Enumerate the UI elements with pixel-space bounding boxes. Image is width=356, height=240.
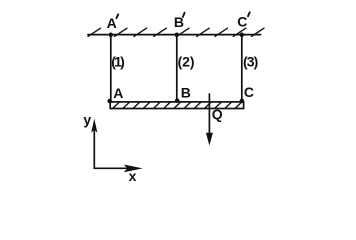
svg-text:(1): (1) <box>111 53 124 69</box>
ceiling hatching <box>88 28 264 36</box>
svg-text:C: C <box>244 84 254 100</box>
arrowhead of force Q <box>206 133 213 146</box>
pin dot A <box>107 99 112 104</box>
beam hatching <box>113 103 242 109</box>
rod 2 (bar B'B) <box>176 35 178 102</box>
y axis shaft <box>93 131 95 168</box>
x axis shaft <box>94 167 127 169</box>
svg-text:C: C <box>237 13 247 29</box>
svg-text:A: A <box>113 85 123 101</box>
pin dot C' <box>240 33 245 38</box>
pin dot A' <box>109 33 114 38</box>
prime of A' <box>116 14 118 18</box>
pin dot B' <box>175 33 180 38</box>
pin dot C <box>240 99 245 104</box>
pin dot B <box>175 98 180 103</box>
arrowhead of y axis <box>91 119 97 133</box>
svg-text:x: x <box>129 168 137 184</box>
svg-text:(2): (2) <box>178 53 195 69</box>
prime of B' <box>183 13 185 17</box>
svg-text:B: B <box>174 14 184 30</box>
rod 3 (bar C'C) <box>241 35 243 102</box>
arrowhead of x axis <box>124 165 143 173</box>
force Q line <box>208 94 210 135</box>
rod 1 (bar A'A) <box>110 35 112 102</box>
svg-text:(3): (3) <box>243 53 258 69</box>
rigid beam outline <box>110 102 243 109</box>
svg-text:y: y <box>83 112 91 128</box>
svg-text:B: B <box>181 85 191 101</box>
prime of C' <box>248 12 250 16</box>
svg-text:A: A <box>107 15 117 31</box>
ceiling line <box>88 34 261 36</box>
svg-text:Q: Q <box>212 106 223 122</box>
